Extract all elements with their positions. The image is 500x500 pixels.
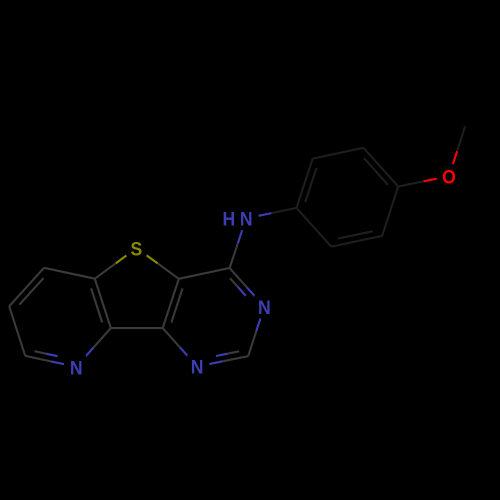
- svg-text:N: N: [258, 296, 271, 318]
- svg-text:N: N: [191, 356, 204, 378]
- bond Bz2-Bz3: [382, 187, 398, 236]
- bond NH-Bz0: [258, 208, 296, 216]
- bond O-CH3: [453, 126, 465, 164]
- bond C2-N3: [248, 319, 260, 357]
- bond Bz4-Bz5: [313, 148, 364, 159]
- bond N3-C4: [230, 268, 256, 297]
- bond C4-B: [179, 268, 230, 279]
- bond C5-C6: [9, 306, 25, 356]
- svg-text:N: N: [70, 357, 83, 379]
- bond A-C4b: [44, 268, 95, 279]
- bond Bz3-Bz4: [364, 148, 399, 187]
- bond Bz5-Bz0: [297, 159, 317, 208]
- bond Bz0-Bz1: [297, 208, 332, 247]
- bond N1-C2: [209, 351, 248, 364]
- bond D-N1: [163, 328, 189, 357]
- svg-text:S: S: [131, 238, 143, 260]
- svg-text:O: O: [442, 165, 456, 187]
- bond Bz1-Bz2: [331, 231, 382, 246]
- bond C4-NH: [230, 230, 243, 268]
- bond S-B: [147, 255, 179, 278]
- bond C4b-C5: [9, 268, 44, 307]
- bond D-B: [163, 279, 183, 328]
- bond S-A: [95, 256, 127, 279]
- bond C6-Npy: [25, 351, 64, 364]
- bond A-C: [91, 279, 111, 328]
- bond Bz3-O: [398, 179, 437, 187]
- bond Npy-C: [85, 328, 111, 358]
- bond C-D: [111, 327, 163, 329]
- svg-text:H: H: [223, 208, 236, 230]
- svg-text:N: N: [240, 208, 253, 230]
